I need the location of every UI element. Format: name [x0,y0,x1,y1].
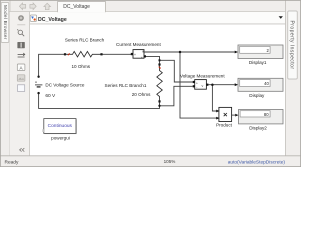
svg-text:40: 40 [264,81,269,86]
display block [238,78,283,91]
svg-text:Ready: Ready [5,159,19,165]
DC voltage source battery [35,76,42,95]
toolstrip annotation icon [17,64,25,71]
wire CM minus to R2 top [146,56,160,63]
wire signal i to Display1 [144,51,234,53]
breadcrumb model icon [30,15,36,21]
arrowhead into product input 2 [216,117,219,120]
left toolstrip [10,12,30,157]
toolstrip empty box icon [18,85,25,92]
node A junction [159,59,161,61]
nav forward arrow [30,3,36,10]
node B junction [158,105,160,107]
active tab DC_Voltage [58,2,106,12]
display2 block [239,110,284,124]
toolstrip collapse chevrons [20,148,25,151]
svg-text:v: v [202,84,204,88]
R1 red terminal tick [68,53,70,55]
wire signal i branch to product [180,52,216,118]
svg-text:Series RLC Branch: Series RLC Branch [65,37,105,42]
wire signal v branch to product [212,85,216,111]
top tab bar strip [0,0,301,12]
svg-text:20 Ohms: 20 Ohms [132,92,151,97]
svg-text:DC Voltage Source: DC Voltage Source [45,82,85,87]
wire node A to voltage measurement plus [160,60,193,82]
R2 bottom port [158,100,160,102]
svg-text:DC_Voltage: DC_Voltage [38,17,67,23]
property inspector vertical tab [288,11,297,79]
resistor R1 Series RLC Branch [64,51,102,57]
R2 red terminal tick [159,67,161,69]
breadcrumb dropdown arrow [279,16,283,19]
signal junction v [211,83,214,86]
toolstrip fit-view icon [17,42,24,48]
outer window border [0,0,300,166]
right dock strip [286,0,302,156]
voltage measurement block U2 [193,80,209,90]
svg-text:Voltage Measurement: Voltage Measurement [180,74,225,79]
breadcrumb bar [30,12,286,25]
svg-text:powergui: powergui [51,135,70,140]
R1 right port [100,53,102,55]
svg-text:60 V: 60 V [45,93,56,99]
wire node B to voltage measurement minus [160,86,193,106]
wire signal v to Display [208,84,234,86]
svg-text:DC_Voltage: DC_Voltage [63,4,90,10]
svg-text:Product: Product [216,123,233,128]
toolstrip arrows icon [18,53,25,57]
toolstrip image icon [17,75,25,81]
arrowhead into display [235,83,238,86]
svg-text:Property Inspector: Property Inspector [289,21,295,70]
resistor R2 Series RLC Branch1 (vertical) [157,64,163,103]
toolstrip zoom icon [17,29,24,36]
display1 block [238,45,283,59]
nav up arrow [44,3,51,10]
svg-text:105%: 105% [164,159,176,164]
svg-text:Display1: Display1 [249,60,267,65]
svg-text:auto(VariableStepDiscrete): auto(VariableStepDiscrete) [228,159,286,165]
svg-text:Current Measurement: Current Measurement [116,42,161,47]
svg-text:10 Ohms: 10 Ohms [71,64,90,69]
powergui block [42,119,76,135]
left dock strip [0,0,10,156]
svg-text:80: 80 [264,112,269,117]
arrowhead into display1 [235,51,238,54]
wire source top to R1 [39,54,64,76]
R1 left port [64,53,66,55]
status bar [0,156,301,167]
svg-text:+: + [134,53,136,57]
signal junction i [179,51,182,54]
R2 top port [158,63,160,65]
arrowhead into product input 1 [216,110,219,113]
nav back arrow [19,3,25,10]
svg-text:-: - [196,86,197,90]
wire product to Display2 [232,114,235,116]
wire R1 to current measurement [102,53,131,55]
svg-text:Display2: Display2 [249,126,267,131]
svg-text:Model Browser: Model Browser [3,5,8,40]
window background [0,0,301,167]
svg-text:Continuous: Continuous [48,123,73,129]
toolstrip circle icon [19,16,24,21]
product block [219,107,232,121]
current measurement block U1 [131,50,146,59]
wire source bottom return [39,93,160,108]
toolstrip separator [17,24,25,26]
canvas [30,24,286,155]
svg-text:Display: Display [249,93,265,98]
svg-text:Series RLC Branch1: Series RLC Branch1 [105,83,147,88]
model browser vertical tab [1,3,9,43]
arrowhead into display2 [235,114,238,117]
